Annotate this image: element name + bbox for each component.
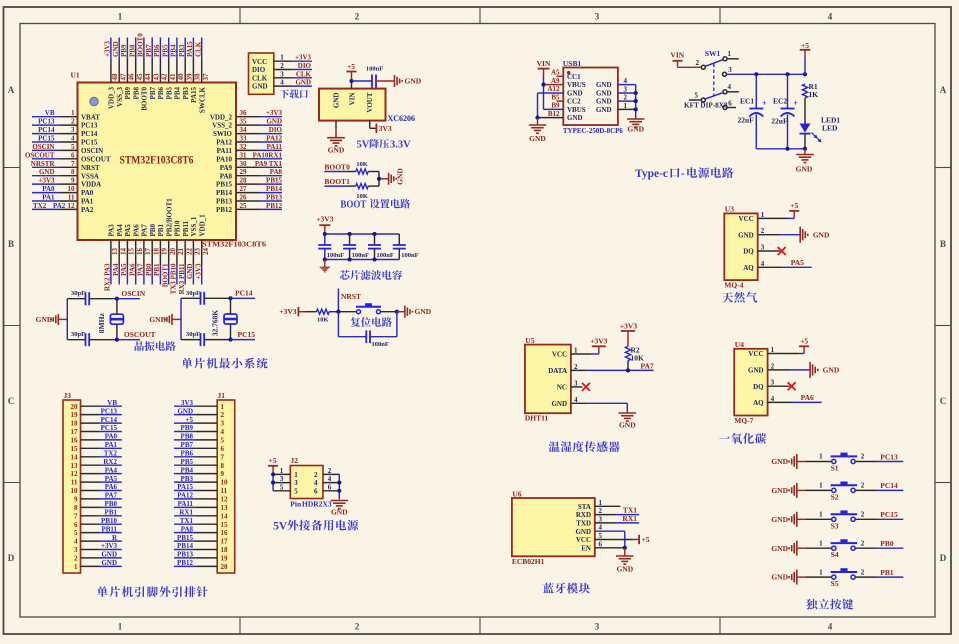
svg-text:8: 8	[74, 504, 78, 512]
svg-text:PB8: PB8	[181, 433, 194, 441]
svg-text:+3V3: +3V3	[195, 263, 203, 280]
junction node NRST	[336, 310, 340, 314]
U1 top pins 48-37 with net labels	[104, 33, 210, 113]
svg-text:PB0: PB0	[145, 263, 153, 276]
svg-text:9: 9	[74, 496, 78, 504]
U5 pin2 DATA wire to PA7	[571, 361, 654, 372]
svg-text:1: 1	[819, 568, 823, 576]
svg-text:GND: GND	[112, 41, 120, 57]
module U6 ECB02H1 body	[512, 489, 595, 566]
svg-text:PB1: PB1	[153, 263, 161, 276]
ground GND (U6)	[616, 548, 634, 574]
svg-text:22uF: 22uF	[738, 116, 755, 125]
LED LED1	[800, 116, 841, 149]
label 芯片滤波电容	[340, 270, 402, 280]
svg-text:TXD: TXD	[576, 520, 591, 528]
svg-text:100nF: 100nF	[401, 252, 418, 259]
svg-text:J1: J1	[218, 391, 226, 400]
svg-text:43: 43	[153, 73, 161, 81]
power port VIN (switch)	[670, 51, 701, 68]
svg-text:33: 33	[240, 135, 248, 143]
svg-text:PC14: PC14	[38, 126, 55, 134]
svg-text:1: 1	[771, 346, 775, 354]
U6 pin2 RXD net TX1	[595, 506, 639, 516]
svg-text:U3: U3	[725, 205, 734, 214]
svg-text:2: 2	[861, 482, 865, 490]
svg-text:2: 2	[221, 411, 225, 419]
svg-text:RX3 PB11: RX3 PB11	[178, 263, 186, 294]
svg-text:GND: GND	[771, 486, 788, 495]
svg-text:VCC: VCC	[739, 215, 754, 223]
svg-text:PA1: PA1	[81, 198, 94, 206]
svg-text:MQ-7: MQ-7	[734, 416, 753, 425]
svg-text:DQ: DQ	[743, 248, 754, 256]
svg-text:GND: GND	[39, 168, 55, 176]
svg-text:RX2: RX2	[103, 458, 117, 466]
svg-text:+5: +5	[801, 41, 809, 50]
capacitor EC1 22uF	[738, 74, 768, 149]
wire VOUT pin to 3V3 port	[370, 121, 377, 129]
label 5V降压3.3V	[357, 139, 412, 151]
svg-text:25: 25	[240, 202, 248, 210]
svg-text:3: 3	[574, 379, 578, 387]
svg-text:Pin: Pin	[290, 500, 302, 509]
svg-text:GND: GND	[252, 83, 268, 91]
svg-text:PC13: PC13	[81, 122, 98, 130]
svg-text:PB7: PB7	[145, 44, 153, 57]
label 一氧化碳	[719, 433, 766, 444]
svg-text:6: 6	[314, 487, 318, 495]
svg-text:8: 8	[71, 168, 75, 176]
J2 right pins 2,4,6 wires to GND rail	[323, 467, 341, 500]
connector USB1 TYPEC body	[563, 59, 623, 135]
svg-text:1: 1	[728, 50, 732, 58]
svg-text:18: 18	[153, 248, 161, 256]
label 温湿度传感器	[549, 441, 620, 452]
svg-text:J3: J3	[64, 391, 72, 400]
svg-text:4: 4	[280, 79, 284, 87]
label 5V外接备用电源	[273, 520, 358, 533]
svg-text:Type-c: Type-c	[635, 168, 668, 180]
svg-text:5: 5	[221, 437, 225, 445]
regulator U2 XC6206 body	[319, 89, 415, 123]
svg-text:PA7: PA7	[105, 492, 118, 500]
svg-text:PB6: PB6	[181, 450, 194, 458]
label 复位电路	[351, 317, 392, 327]
svg-text:PC14: PC14	[235, 289, 253, 298]
svg-text:32: 32	[240, 143, 248, 151]
svg-text:100nF: 100nF	[372, 341, 389, 348]
svg-text:PA10RX1: PA10RX1	[253, 151, 283, 159]
svg-text:PB14: PB14	[266, 185, 282, 193]
svg-text:U4: U4	[735, 340, 744, 349]
svg-text:13: 13	[221, 504, 229, 512]
power port +5 (regulator input)	[347, 62, 357, 81]
svg-text:41: 41	[169, 73, 177, 81]
svg-text:PA11: PA11	[178, 500, 194, 508]
svg-text:PA0: PA0	[105, 433, 118, 441]
svg-text:OSCIN: OSCIN	[121, 289, 145, 298]
svg-text:PB0: PB0	[149, 224, 157, 237]
svg-text:GND: GND	[101, 559, 117, 567]
svg-text:GND: GND	[596, 90, 612, 98]
svg-text:VIN: VIN	[537, 59, 551, 68]
svg-text:ECB02H1: ECB02H1	[512, 557, 545, 566]
svg-text:39: 39	[186, 73, 194, 81]
svg-text:PB12: PB12	[216, 206, 232, 214]
svg-text:12: 12	[68, 202, 76, 210]
svg-text:GND: GND	[396, 168, 405, 185]
svg-text:PA2: PA2	[81, 206, 94, 214]
svg-text:18: 18	[71, 420, 79, 428]
svg-text:12: 12	[221, 496, 229, 504]
capacitor 30pF top	[67, 290, 117, 305]
svg-text:PB1: PB1	[157, 224, 165, 237]
svg-text:PA1: PA1	[105, 441, 118, 449]
svg-text:PA0: PA0	[81, 189, 94, 197]
ground GND (power rail)	[796, 149, 814, 174]
svg-text:+: +	[762, 99, 767, 108]
download-port pins 1-4 wires and net labels	[274, 54, 312, 87]
svg-text:VSS_2: VSS_2	[212, 122, 232, 130]
node OSCIN	[115, 289, 146, 301]
U3 pin3 DQ no-connect	[758, 244, 786, 256]
svg-text:3: 3	[599, 515, 603, 523]
svg-text:7: 7	[221, 453, 225, 461]
resistor R1 1K	[802, 82, 818, 124]
junction node +5/VIN	[349, 79, 353, 83]
svg-text:PA4: PA4	[116, 224, 124, 237]
resistor R2 10K pull-up	[625, 346, 644, 371]
svg-text:6: 6	[728, 99, 732, 107]
svg-text:32.768K: 32.768K	[211, 310, 220, 337]
svg-text:4: 4	[828, 12, 833, 22]
svg-text:VIN: VIN	[349, 93, 357, 106]
svg-text:NRST: NRST	[81, 164, 100, 172]
label 晶振电路	[135, 341, 176, 351]
capacitor 30pF bottom	[67, 331, 117, 346]
svg-text:BOOT1: BOOT1	[162, 263, 170, 287]
net label PB1 wire	[855, 568, 903, 577]
svg-text:100nF: 100nF	[366, 66, 383, 73]
svg-text:PC14: PC14	[81, 130, 98, 138]
junction node BOOT	[377, 177, 381, 181]
svg-text:PB14: PB14	[216, 189, 232, 197]
svg-text:GND: GND	[738, 231, 754, 239]
svg-text:20: 20	[71, 403, 79, 411]
svg-text:3.3V: 3.3V	[390, 140, 411, 151]
svg-text:3V3: 3V3	[181, 399, 194, 407]
svg-text:RXD: RXD	[576, 511, 591, 519]
svg-text:1: 1	[74, 563, 78, 571]
svg-text:19: 19	[71, 411, 79, 419]
svg-text:100nF: 100nF	[327, 252, 344, 259]
capacitor EC2 22uF	[771, 74, 798, 149]
svg-text:3V3: 3V3	[379, 124, 392, 133]
svg-text:PA6: PA6	[129, 263, 137, 276]
capacitor 100nF filter #2	[343, 234, 369, 260]
svg-text:5: 5	[280, 483, 284, 491]
svg-text:2: 2	[771, 362, 775, 370]
ground GND (S4)	[771, 541, 806, 556]
svg-text:PB4: PB4	[174, 87, 182, 100]
svg-text:PC14: PC14	[101, 416, 118, 424]
svg-text:VSSA: VSSA	[81, 172, 99, 180]
svg-text:PA8: PA8	[220, 172, 233, 180]
svg-text:TX3 PB10: TX3 PB10	[170, 263, 178, 294]
ground GND (S2)	[771, 483, 806, 498]
svg-text:1: 1	[280, 54, 284, 62]
svg-text:-: -	[681, 168, 685, 180]
J1 pins 1-20 wires and net labels	[174, 399, 228, 571]
U6 pin5 VCC to +5	[595, 532, 650, 544]
svg-text:2: 2	[71, 118, 75, 126]
svg-text:PB7: PB7	[181, 441, 194, 449]
svg-text:PB11: PB11	[101, 525, 117, 533]
svg-text:4: 4	[74, 538, 78, 546]
svg-text:NRST: NRST	[341, 292, 361, 301]
svg-text:+3V3: +3V3	[590, 336, 607, 345]
svg-text:47: 47	[120, 73, 128, 81]
svg-text:PB4: PB4	[181, 466, 194, 474]
svg-text:GND: GND	[295, 79, 311, 87]
label 单片机最小系统	[182, 358, 268, 369]
U6 pin4 GND wire	[595, 524, 625, 548]
svg-text:1: 1	[819, 453, 823, 461]
svg-text:TYPEC-250D-8CP6: TYPEC-250D-8CP6	[563, 126, 623, 135]
svg-text:3: 3	[74, 546, 78, 554]
svg-text:1: 1	[118, 622, 123, 632]
capacitor 100nF (reset)	[338, 312, 397, 348]
svg-text:11: 11	[71, 479, 78, 487]
svg-text:2: 2	[696, 59, 700, 67]
svg-text:10K: 10K	[631, 354, 645, 363]
svg-text:30pF: 30pF	[186, 290, 200, 297]
svg-text:3: 3	[595, 622, 600, 632]
svg-text:1: 1	[599, 499, 603, 507]
svg-text:CLK: CLK	[296, 70, 312, 78]
svg-text:1: 1	[819, 482, 823, 490]
svg-text:PB13: PB13	[177, 551, 193, 559]
svg-text:42: 42	[161, 73, 169, 81]
ground GND (USB shield)	[627, 118, 645, 134]
push button reset switch	[338, 303, 397, 314]
svg-text:3: 3	[771, 379, 775, 387]
svg-text:VBUS: VBUS	[567, 106, 586, 114]
svg-text:PB8: PB8	[129, 44, 137, 57]
svg-text:PB5: PB5	[162, 44, 170, 57]
svg-text:2: 2	[74, 555, 78, 563]
svg-text:3: 3	[761, 244, 765, 252]
svg-text:GND: GND	[567, 114, 583, 122]
svg-text:EC1: EC1	[740, 97, 754, 106]
power port +5 (U4)	[799, 336, 809, 346]
svg-text:PB9: PB9	[181, 424, 194, 432]
resistor 10K (BOOT1)	[356, 184, 379, 200]
capacitor 100nF filter #3	[368, 234, 394, 260]
svg-text:1: 1	[294, 471, 298, 479]
svg-text:VDD_2: VDD_2	[210, 113, 233, 121]
power port +3V3 (R2 top)	[620, 322, 637, 347]
svg-text:PA1: PA1	[42, 194, 55, 202]
svg-text:A: A	[8, 85, 15, 95]
label Type-c口-电源电路	[635, 167, 733, 180]
svg-text:B12: B12	[548, 110, 560, 118]
svg-text:24: 24	[202, 248, 210, 256]
svg-text:STM32F103C8T6: STM32F103C8T6	[202, 241, 267, 249]
svg-text:B: B	[8, 239, 14, 249]
ground GND (S3)	[771, 512, 806, 527]
svg-text:BOOT1: BOOT1	[324, 177, 350, 186]
svg-text:KFT DIP-8X8: KFT DIP-8X8	[684, 101, 728, 109]
power port +3V3 (reset)	[279, 307, 316, 317]
svg-text:AQ: AQ	[743, 264, 754, 272]
U3 pin2 GND wire	[758, 227, 801, 235]
ground GND (crystal)	[36, 314, 68, 325]
svg-text:VOUT: VOUT	[366, 92, 374, 112]
svg-text:GND: GND	[771, 515, 788, 524]
svg-text:GND: GND	[328, 146, 345, 155]
svg-text:A5: A5	[551, 69, 560, 77]
U1 left pins 1-12 with net labels	[25, 109, 111, 214]
U5 pin4 GND wire	[571, 396, 627, 413]
U3 pin1 VCC wire to +5	[758, 211, 795, 219]
svg-text:PA3: PA3	[108, 224, 116, 237]
svg-text:2: 2	[861, 511, 865, 519]
svg-text:10: 10	[71, 487, 79, 495]
svg-text:37: 37	[202, 73, 210, 81]
svg-text:PB13: PB13	[216, 198, 232, 206]
svg-text:2: 2	[355, 622, 360, 632]
svg-text:+5: +5	[800, 336, 808, 345]
mcu U1 STM32F103C8T6 body	[71, 71, 267, 249]
svg-text:PB4: PB4	[170, 44, 178, 57]
svg-text:XC6206: XC6206	[388, 114, 416, 123]
svg-text:VDD_1: VDD_1	[199, 214, 207, 237]
svg-text:PB11: PB11	[182, 220, 190, 236]
svg-text:7: 7	[74, 512, 78, 520]
net label PC14 wire	[855, 481, 903, 490]
capacitor 100nF (regulator bypass)	[366, 66, 395, 88]
svg-text:17: 17	[71, 428, 79, 436]
svg-text:GND: GND	[748, 367, 764, 375]
push button S2	[806, 482, 865, 502]
svg-text:PB10: PB10	[101, 517, 117, 525]
net label PB0 wire	[855, 539, 903, 548]
svg-text:+5: +5	[642, 535, 650, 544]
capacitor 100nF filter #1	[318, 234, 344, 260]
capacitor 100nF filter #4	[393, 234, 419, 260]
svg-text:PA11: PA11	[217, 147, 233, 155]
svg-text:+5: +5	[268, 456, 276, 465]
svg-text:22uF: 22uF	[771, 117, 788, 126]
svg-text:10K: 10K	[356, 161, 368, 168]
ground GND (BOOT resistors)	[389, 168, 405, 185]
svg-text:PB14: PB14	[177, 542, 193, 550]
ground GND (S1)	[771, 454, 806, 469]
power port +3V3 (filter caps)	[316, 215, 333, 235]
svg-text:40: 40	[177, 73, 185, 81]
svg-text:PA4: PA4	[112, 263, 120, 276]
svg-text:+3V3: +3V3	[104, 40, 112, 57]
wire switch output rail	[727, 72, 808, 76]
svg-text:+3V3: +3V3	[316, 215, 333, 224]
svg-text:PC15: PC15	[238, 330, 256, 339]
svg-text:3: 3	[280, 70, 284, 78]
svg-text:PB10: PB10	[174, 220, 182, 236]
wire BOOT junction	[379, 172, 389, 187]
svg-text:17: 17	[221, 538, 229, 546]
svg-text:GND: GND	[529, 134, 546, 143]
svg-text:PA5: PA5	[124, 224, 132, 237]
USB1 left pins A5-B12	[535, 69, 563, 120]
svg-text:GND: GND	[405, 77, 422, 86]
svg-text:PA2: PA2	[53, 202, 66, 210]
svg-text:5: 5	[74, 529, 78, 537]
svg-text:VBUS: VBUS	[567, 81, 586, 89]
svg-text:GND: GND	[813, 230, 830, 239]
svg-text:NRSTR: NRSTR	[31, 160, 56, 168]
svg-text:19: 19	[221, 555, 229, 563]
push button S5	[806, 568, 865, 588]
svg-text:U6: U6	[512, 489, 521, 498]
svg-text:OSCIN: OSCIN	[32, 143, 54, 151]
svg-text:20: 20	[221, 563, 229, 571]
svg-text:2: 2	[861, 539, 865, 547]
svg-text:LED: LED	[822, 124, 838, 133]
svg-text:GND: GND	[415, 307, 432, 316]
svg-text:15: 15	[128, 248, 136, 256]
wire crystal left rail	[180, 298, 182, 339]
svg-text:4: 4	[328, 475, 332, 483]
svg-text:BOOT0: BOOT0	[141, 87, 149, 111]
svg-text:GND: GND	[331, 508, 348, 517]
sensor U3 MQ-4 body	[724, 205, 757, 290]
svg-text:4: 4	[221, 428, 225, 436]
svg-text:A12: A12	[547, 85, 560, 93]
svg-text:CLK: CLK	[195, 41, 203, 57]
svg-text:PB9: PB9	[124, 87, 132, 100]
svg-text:PB0: PB0	[105, 500, 118, 508]
svg-text:6: 6	[221, 445, 225, 453]
svg-text:30pF: 30pF	[186, 331, 200, 338]
svg-text:GND: GND	[619, 421, 636, 430]
svg-text:PC15: PC15	[81, 139, 98, 147]
svg-text:14: 14	[71, 453, 79, 461]
svg-text:16: 16	[221, 529, 229, 537]
svg-text:STA: STA	[578, 503, 591, 511]
resistor 10K (BOOT0)	[356, 161, 379, 174]
svg-text:BOOT: BOOT	[340, 200, 366, 211]
svg-text:PA11: PA11	[267, 143, 283, 151]
svg-text:CLK: CLK	[252, 74, 268, 82]
svg-text:35: 35	[240, 118, 248, 126]
svg-text:2: 2	[599, 507, 603, 515]
svg-text:5: 5	[599, 532, 603, 540]
svg-text:PA12: PA12	[177, 492, 193, 500]
svg-text:10K: 10K	[317, 317, 329, 324]
svg-text:1K: 1K	[809, 90, 819, 99]
node PC14	[228, 289, 255, 301]
power port +5 (J2)	[268, 456, 278, 474]
svg-text:22: 22	[186, 248, 194, 256]
svg-text:CC1: CC1	[567, 73, 581, 81]
svg-text:GND: GND	[616, 565, 633, 574]
svg-text:4: 4	[771, 395, 775, 403]
svg-text:GND: GND	[596, 81, 612, 89]
svg-text:1: 1	[819, 511, 823, 519]
svg-text:B9: B9	[551, 102, 560, 110]
